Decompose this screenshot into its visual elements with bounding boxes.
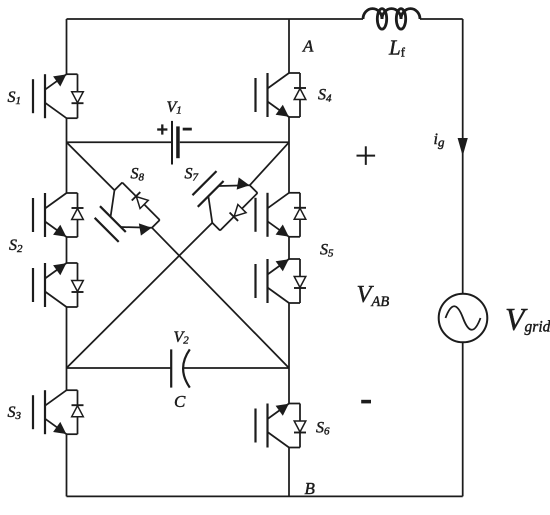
svg-text:C: C xyxy=(174,392,186,411)
svg-text:B: B xyxy=(305,479,316,498)
svg-text:ig: ig xyxy=(434,131,445,150)
svg-text:A: A xyxy=(302,37,314,56)
